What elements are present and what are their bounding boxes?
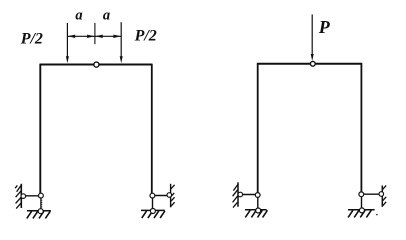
right support of left frame: horizontal link <box>152 195 169 197</box>
dimension arrowhead left-outer <box>68 35 76 38</box>
right frame right support: wall pin <box>379 192 384 197</box>
right frame left support: ground pin <box>256 208 261 213</box>
dimension line right span <box>95 35 121 37</box>
right frame left support: column pin <box>255 193 260 198</box>
right frame right support: ground line <box>348 209 375 211</box>
left frame right column <box>151 64 153 194</box>
force arrow P/2 right (head) <box>120 56 123 63</box>
force arrow P (line) <box>311 14 313 55</box>
right support of left frame: wall hatching <box>171 185 175 206</box>
force arrow P/2 left (head) <box>66 56 69 63</box>
right frame left support: wall pin <box>238 192 243 197</box>
svg-text:P/2: P/2 <box>134 28 157 45</box>
dimension line left span <box>67 35 95 37</box>
left support: ground hatching <box>27 211 50 218</box>
hinge at right frame beam center <box>310 61 315 66</box>
force arrow P/2 left (line) <box>66 23 68 57</box>
left support: horizontal link <box>23 195 41 197</box>
left frame beam <box>40 64 151 66</box>
right frame left support: ground hatching <box>245 210 267 217</box>
left support: ground line <box>27 210 51 212</box>
right frame left column <box>257 63 259 193</box>
left support: column pin <box>39 193 44 198</box>
svg-text:P/2: P/2 <box>20 31 43 48</box>
force arrow P (head) <box>311 54 314 61</box>
hinge at left frame beam center <box>94 62 99 67</box>
right frame right support: wall hatching <box>383 185 387 205</box>
force arrow P/2 right (line) <box>120 22 122 57</box>
left frame left column <box>39 64 41 194</box>
right frame right support: wall line <box>381 186 383 207</box>
left support: vertical link serration <box>41 200 42 207</box>
right frame right column <box>360 63 362 192</box>
right frame beam <box>258 63 362 65</box>
right support of left frame: wall pin <box>167 193 172 198</box>
right frame left support: vertical link <box>257 195 259 211</box>
right frame right support: vertical link <box>361 194 363 210</box>
svg-text:P: P <box>318 17 331 37</box>
svg-text:a: a <box>75 8 82 24</box>
right support of left frame: ground hatching <box>142 211 165 218</box>
left support: wall hatching <box>15 185 22 209</box>
right support of left frame: column pin <box>150 193 155 198</box>
right frame right support: horizontal link <box>361 193 381 195</box>
right frame left support: wall line <box>237 182 239 207</box>
right support of left frame: vertical link <box>152 196 154 211</box>
left support: ground pin <box>38 209 43 214</box>
right frame left support: ground line <box>245 209 267 211</box>
dimension arrowhead right-outer <box>113 35 121 38</box>
left support: vertical link <box>40 196 42 211</box>
right frame left support: wall hatching <box>233 184 239 208</box>
right frame right support: column pin <box>359 192 364 197</box>
right support of left frame: ground line <box>141 209 165 211</box>
right support of left frame: wall line <box>170 184 172 208</box>
svg-text:a: a <box>103 8 110 24</box>
right frame left support: horizontal link <box>240 194 257 196</box>
dimension arrowhead left-inner <box>87 35 95 38</box>
speck right of right ground <box>376 213 377 215</box>
right frame right support: ground pin <box>359 208 364 213</box>
right support of left frame: ground pin <box>150 209 155 214</box>
left support: wall pin <box>21 194 26 199</box>
dimension middle tick <box>94 23 96 44</box>
left support: wall line <box>20 184 22 208</box>
dimension arrowhead right-inner <box>95 35 103 38</box>
right frame right support: ground hatching <box>348 210 371 217</box>
